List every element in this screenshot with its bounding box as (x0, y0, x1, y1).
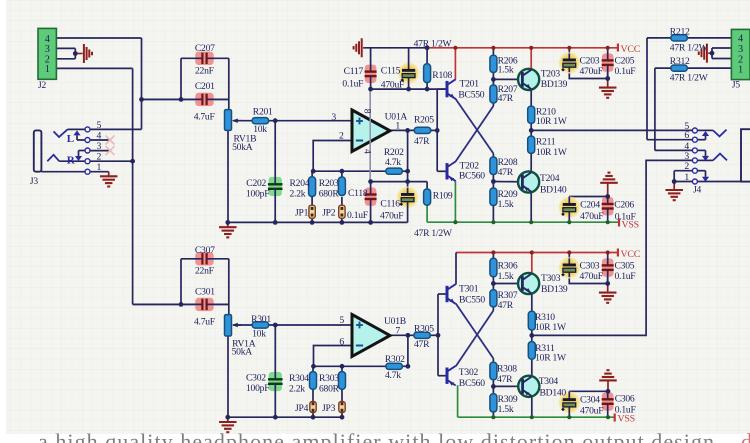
svg-text:3: 3 (45, 44, 50, 55)
svg-text:R308: R308 (497, 364, 517, 375)
svg-text:470uF: 470uF (580, 271, 603, 282)
svg-text:47R 1/2W: 47R 1/2W (670, 73, 709, 84)
svg-text:4: 4 (362, 149, 373, 154)
svg-text:5: 5 (339, 315, 344, 326)
svg-text:6: 6 (339, 337, 344, 348)
svg-text:C304: C304 (580, 395, 600, 406)
svg-text:BD139: BD139 (541, 79, 568, 90)
svg-text:R211: R211 (536, 137, 556, 148)
svg-text:C116: C116 (380, 199, 400, 210)
svg-text:JP3: JP3 (322, 403, 336, 414)
svg-text:C307: C307 (195, 245, 215, 256)
svg-text:22nF: 22nF (195, 66, 214, 77)
svg-text:C118: C118 (348, 188, 368, 199)
svg-text:C204: C204 (580, 200, 600, 211)
svg-text:R203: R203 (319, 178, 339, 189)
svg-text:47R: 47R (414, 339, 430, 350)
svg-text:R303: R303 (319, 373, 339, 384)
svg-text:R301: R301 (251, 314, 271, 325)
svg-text:R108: R108 (432, 70, 452, 81)
svg-text:47R 1/2W: 47R 1/2W (670, 43, 709, 54)
svg-text:100pF: 100pF (246, 383, 269, 394)
svg-text:47R: 47R (498, 167, 514, 178)
svg-text:470uF: 470uF (580, 66, 603, 77)
svg-text:R305: R305 (414, 324, 434, 335)
svg-text:47R 1/2W: 47R 1/2W (414, 39, 453, 50)
svg-text:1.5k: 1.5k (498, 271, 514, 282)
svg-text:T302: T302 (459, 367, 479, 378)
svg-text:1.5k: 1.5k (498, 404, 514, 415)
svg-text:2.2k: 2.2k (290, 189, 306, 200)
svg-text:4.7uF: 4.7uF (194, 317, 215, 328)
svg-text:4: 4 (97, 131, 102, 142)
svg-text:R: R (67, 155, 76, 167)
svg-text:1: 1 (395, 121, 400, 132)
svg-text:JP2: JP2 (322, 208, 336, 219)
svg-text:C207: C207 (195, 43, 215, 54)
svg-text:VCC: VCC (621, 44, 641, 55)
svg-text:VSS: VSS (618, 414, 635, 425)
svg-text:4.7uF: 4.7uF (194, 112, 215, 123)
svg-text:0.1uF: 0.1uF (342, 79, 363, 90)
svg-text:J4: J4 (693, 186, 701, 196)
svg-text:3: 3 (97, 141, 102, 152)
svg-text:T301: T301 (459, 284, 479, 295)
svg-text:VCC: VCC (621, 249, 641, 260)
svg-text:R201: R201 (253, 107, 273, 118)
svg-text:BC560: BC560 (459, 378, 485, 389)
svg-text:470uF: 470uF (381, 80, 404, 91)
svg-text:7: 7 (395, 326, 400, 337)
svg-text:C117: C117 (344, 66, 364, 77)
svg-text:1: 1 (684, 172, 689, 183)
svg-text:10R 1W: 10R 1W (535, 353, 567, 364)
svg-text:4: 4 (45, 34, 50, 45)
svg-text:47R: 47R (414, 136, 430, 147)
svg-text:C303: C303 (580, 261, 600, 272)
svg-text:47R 1/2W: 47R 1/2W (414, 228, 453, 239)
svg-text:R312: R312 (670, 56, 690, 67)
svg-text:3: 3 (331, 112, 336, 123)
svg-text:8: 8 (362, 109, 373, 114)
svg-text:6: 6 (684, 130, 689, 141)
svg-text:4.7k: 4.7k (385, 370, 401, 381)
svg-text:C205: C205 (615, 56, 635, 67)
svg-text:C115: C115 (381, 66, 401, 77)
svg-text:47R: 47R (498, 93, 514, 104)
svg-text:BD139: BD139 (541, 284, 568, 295)
svg-text:BC550: BC550 (459, 295, 485, 306)
svg-text:T201: T201 (460, 79, 480, 90)
svg-text:C206: C206 (614, 200, 634, 211)
svg-text:C202: C202 (246, 178, 266, 189)
svg-text:10R 1W: 10R 1W (536, 116, 568, 127)
svg-text:3: 3 (738, 44, 743, 55)
svg-text:BD140: BD140 (540, 185, 567, 196)
svg-text:R204: R204 (290, 178, 310, 189)
svg-text:470uF: 470uF (380, 211, 403, 222)
svg-text:C306: C306 (615, 394, 635, 405)
svg-text:dz: dz (741, 429, 750, 443)
svg-text:1: 1 (738, 65, 743, 76)
svg-text:T304: T304 (539, 376, 559, 387)
svg-text:C301: C301 (195, 287, 215, 298)
svg-text:0.1uF: 0.1uF (615, 271, 636, 282)
svg-text:VSS: VSS (622, 220, 639, 231)
svg-text:R306: R306 (498, 260, 518, 271)
svg-text:C201: C201 (195, 81, 215, 92)
svg-text:5: 5 (97, 120, 102, 131)
svg-text:C305: C305 (615, 261, 635, 272)
svg-text:10k: 10k (252, 329, 266, 340)
svg-text:2: 2 (339, 130, 344, 141)
svg-text:BD140: BD140 (540, 388, 567, 399)
svg-text:1: 1 (97, 162, 102, 173)
svg-text:C203: C203 (580, 56, 600, 67)
svg-text:50kA: 50kA (232, 347, 253, 358)
svg-text:T303: T303 (541, 273, 561, 284)
svg-text:680R: 680R (319, 384, 340, 395)
svg-text:50kA: 50kA (232, 142, 253, 153)
svg-text:a high quality headphone ampli: a high quality headphone amplifier with … (38, 429, 714, 443)
svg-text:2: 2 (97, 152, 102, 163)
svg-text:47R: 47R (498, 300, 514, 311)
svg-text:47R: 47R (497, 374, 513, 385)
svg-text:R212: R212 (670, 27, 690, 38)
svg-text:T203: T203 (541, 69, 561, 80)
svg-text:J5: J5 (732, 81, 740, 91)
svg-text:10R 1W: 10R 1W (536, 147, 568, 158)
svg-text:4.7k: 4.7k (385, 157, 401, 168)
svg-text:R109: R109 (433, 191, 453, 202)
svg-text:JP1: JP1 (295, 208, 309, 219)
svg-text:470uF: 470uF (580, 211, 603, 222)
svg-text:J2: J2 (38, 81, 46, 91)
svg-text:470uF: 470uF (580, 406, 603, 417)
svg-text:L: L (67, 133, 74, 145)
svg-text:2.2k: 2.2k (289, 384, 305, 395)
svg-text:1.5k: 1.5k (498, 199, 514, 210)
svg-text:C302: C302 (246, 373, 266, 384)
svg-text:BC560: BC560 (459, 171, 485, 182)
svg-text:10R 1W: 10R 1W (535, 322, 567, 333)
svg-text:R304: R304 (289, 373, 309, 384)
svg-text:JP4: JP4 (295, 403, 309, 414)
svg-text:100pF: 100pF (246, 189, 269, 200)
svg-text:BC550: BC550 (458, 90, 484, 101)
svg-text:T204: T204 (540, 173, 560, 184)
svg-text:10k: 10k (253, 124, 267, 135)
svg-text:J3: J3 (30, 177, 38, 187)
svg-text:22nF: 22nF (195, 266, 214, 277)
svg-text:1: 1 (45, 64, 50, 75)
svg-text:2: 2 (684, 161, 689, 172)
svg-text:0.1uF: 0.1uF (347, 210, 368, 221)
svg-text:0.1uF: 0.1uF (615, 66, 636, 77)
svg-text:R205: R205 (414, 115, 434, 126)
svg-text:R302: R302 (385, 354, 405, 365)
svg-text:680R: 680R (319, 189, 340, 200)
svg-text:1.5k: 1.5k (498, 65, 514, 76)
